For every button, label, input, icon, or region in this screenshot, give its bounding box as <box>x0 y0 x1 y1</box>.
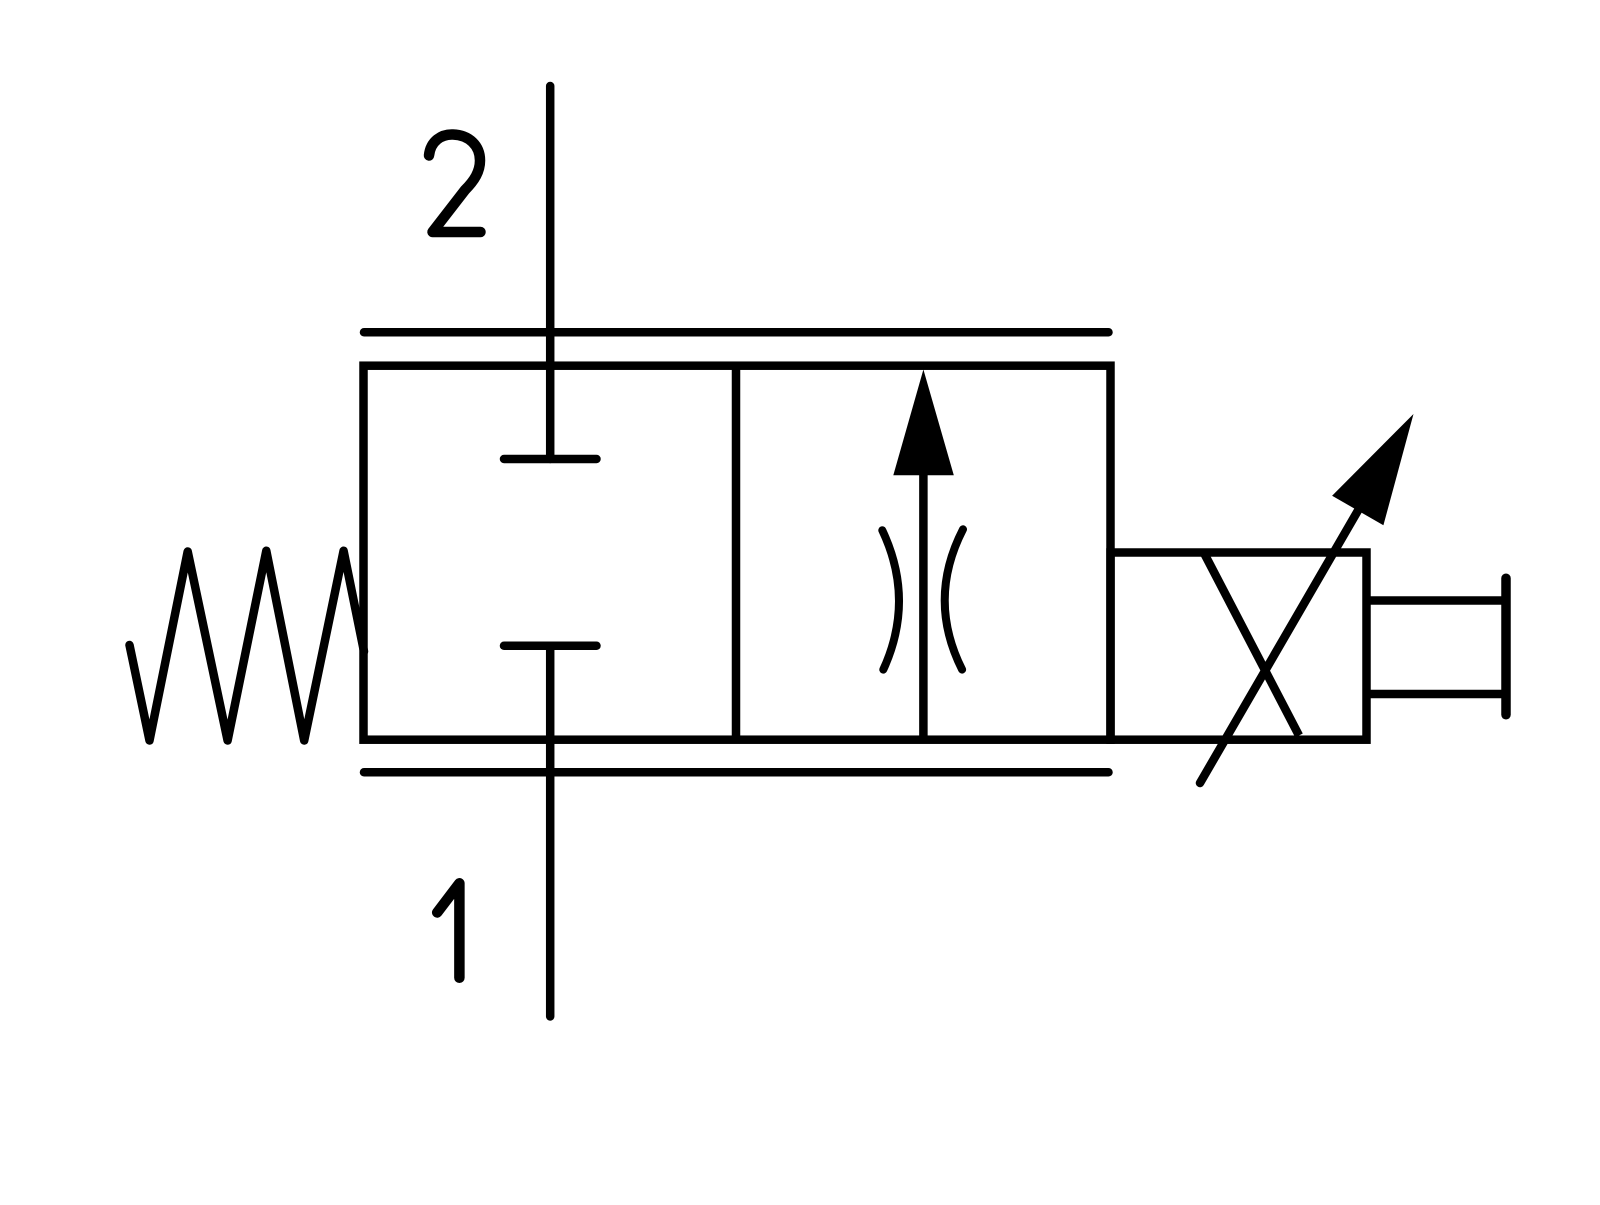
electrical connector bottom lead <box>1367 690 1506 699</box>
position divider line <box>732 366 741 740</box>
flow arrowhead <box>893 370 954 476</box>
valve body envelope (two-position box) <box>364 366 1111 740</box>
restrictor arc right <box>945 529 963 669</box>
flow path arrow shaft (right position) <box>919 472 928 740</box>
label "2" <box>429 134 481 232</box>
restrictor arc left <box>882 530 899 669</box>
top body rail line <box>364 328 1109 337</box>
electrical connector top lead <box>1367 596 1506 605</box>
bottom body rail line <box>364 768 1109 777</box>
blocked port 2 T-bar <box>504 455 597 464</box>
proportional solenoid box <box>1111 553 1367 740</box>
label "1" <box>437 883 459 978</box>
solenoid cross diagonal <box>1204 553 1299 736</box>
electrical connector pin bar <box>1501 578 1511 715</box>
return spring <box>130 551 365 741</box>
adjustment arrowhead <box>1332 414 1413 525</box>
port 1 line (node 1) <box>546 646 555 1017</box>
port 2 line (node 2) <box>546 86 555 459</box>
blocked port 1 T-bar <box>504 641 597 650</box>
adjustment arrow shaft <box>1200 511 1358 784</box>
